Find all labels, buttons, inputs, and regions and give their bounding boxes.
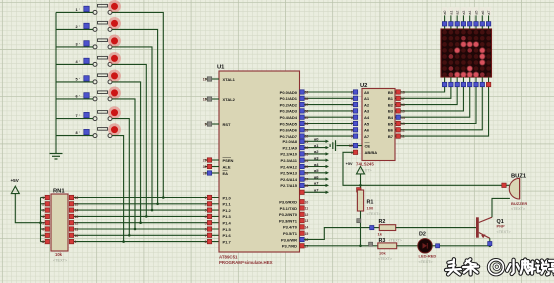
svg-text:15: 15 [305,232,309,236]
U1 pin 13 P3.3/INT1 [300,218,304,222]
wire P3.7 to R3 [304,245,378,247]
svg-text:P1.2: P1.2 [223,208,232,213]
U1 pin 25 P2.4 net label a4 [300,166,326,168]
svg-text:a7: a7 [487,11,491,15]
U1 pin 18 XTAL2 [205,98,219,100]
matrix top pin a2 [456,15,458,30]
svg-text:8: 8 [42,240,44,244]
svg-text:35: 35 [305,116,309,120]
wire button S6 to P1.5 [112,99,135,229]
svg-text:A7: A7 [364,134,370,139]
svg-text:B0: B0 [388,90,394,95]
svg-text:+5V: +5V [346,162,353,166]
svg-text:XTAL2: XTAL2 [223,97,236,102]
svg-text:14: 14 [75,209,79,213]
wire +5V to R1 [360,174,362,190]
svg-text:PSEN: PSEN [223,158,234,163]
svg-text:4: 4 [205,215,207,219]
matrix bottom pin b3 [462,77,464,87]
wire button S8 left to bus [56,135,93,137]
svg-text:▫: ▫ [79,7,80,11]
svg-text:23: 23 [305,153,309,157]
svg-text:15: 15 [75,202,79,206]
matrix bottom pin b4 [469,77,471,87]
svg-text:P3.5/T1: P3.5/T1 [283,231,298,236]
svg-text:a4: a4 [468,11,472,15]
svg-text:a5: a5 [475,11,479,15]
matrix bottom pin b2 [456,77,458,87]
svg-text:12: 12 [75,221,79,225]
svg-text:<TEXT>: <TEXT> [389,238,402,242]
svg-text:a5: a5 [314,168,319,173]
U1 pin 16 P3.6/WR [300,237,304,241]
U1 pin 6 P1.5 [207,227,211,231]
svg-text:A3: A3 [364,109,370,114]
svg-text:5: 5 [205,221,207,225]
svg-text:D2: D2 [419,231,426,237]
U1 pin 19 XTAL1 [205,78,219,80]
wire button common ground bus [55,12,57,152]
wire button S1 left to bus [56,11,93,13]
svg-text:7: 7 [205,234,207,238]
svg-text:P0.1/AD1: P0.1/AD1 [280,96,298,101]
svg-text:P3.0/RXD: P3.0/RXD [279,200,297,205]
svg-text:A1: A1 [364,96,370,101]
svg-text:22: 22 [305,146,309,150]
transistor Q1 PNP [476,217,479,237]
svg-text:2: 2 [76,25,78,29]
wire button S8 to P1.7 [112,136,124,242]
svg-text:7: 7 [42,234,44,238]
svg-text:30: 30 [203,165,207,169]
svg-text:5: 5 [76,77,78,81]
svg-text:CE: CE [365,143,371,148]
svg-text:P1.4: P1.4 [223,221,232,226]
svg-text:a2: a2 [314,149,319,154]
svg-text:<TEXT>: <TEXT> [378,257,393,261]
svg-text:29: 29 [203,159,207,163]
svg-text:A2: A2 [364,102,370,107]
wire button S3 to P1.2 [112,47,152,210]
svg-text:26: 26 [305,171,309,175]
wire button S4 to P1.3 [112,64,146,216]
svg-text:P1.0: P1.0 [223,195,232,200]
wire R1 to LED row [360,211,362,246]
svg-text:6: 6 [42,228,44,232]
svg-text:P1.7: P1.7 [223,239,232,244]
U1 pin 30 ALE [205,166,219,168]
watermark 头条 @小魁说事 [448,262,453,263]
svg-text:a1: a1 [314,143,319,148]
svg-text:a2: a2 [456,11,460,15]
svg-text:ALE: ALE [223,164,231,169]
U1 pin 32 P0.7 wire to U2 A7 [300,135,354,137]
svg-text:13: 13 [305,219,309,223]
svg-text:P3.4/T0: P3.4/T0 [283,225,298,230]
U2 pin 19 CE [337,145,363,147]
svg-text:<TEXT>: <TEXT> [419,260,434,264]
U2 pin 7 A5 [353,121,357,125]
wire D2 to Q1 emitter [432,245,490,247]
matrix bottom pin b1 [450,77,452,87]
U1 pin 21 P2.0 net label a0 [300,140,326,142]
wire button S3 left to bus [56,46,93,48]
U2 pin 4 A2 [353,102,357,106]
svg-text:A0: A0 [364,90,370,95]
U2 pin 3 A1 [353,96,357,100]
U1 pin 10 P3.0/RXD [300,200,304,204]
svg-text:P0.3/AD3: P0.3/AD3 [280,109,298,114]
svg-text:a1: a1 [449,11,453,15]
svg-text:<TEXT>: <TEXT> [358,169,373,173]
svg-text:B4: B4 [388,115,394,120]
svg-text:7: 7 [76,114,78,118]
U1 pin 22 P2.1 net label a1 [300,147,326,149]
svg-text:RST: RST [223,122,232,127]
wire P3.6 to R2 / Q1 base net [304,228,379,240]
svg-text:P3.3/INT1: P3.3/INT1 [279,218,298,223]
wire button S1 to P1.0 [112,12,163,197]
wire net P1.3 row [74,215,219,217]
U1 pin 9 RST [205,123,219,125]
U2 pin 17 B1 wire to matrix column 1 [395,87,451,99]
svg-text:P2.4/A12: P2.4/A12 [280,164,297,169]
svg-text:5: 5 [351,110,353,114]
svg-text:10: 10 [75,234,79,238]
U2 pin 15 B3 wire to matrix column 3 [395,87,463,111]
matrix top pin a3 [462,15,464,30]
U2 pin 18 B0 wire to matrix column 0 [395,87,445,92]
svg-text:12: 12 [401,128,405,132]
svg-text:P2.6/A14: P2.6/A14 [280,177,297,182]
svg-text:9: 9 [205,123,207,127]
svg-text:<TEXT>: <TEXT> [367,212,382,216]
svg-text:11: 11 [401,135,405,139]
U2 pin 2 A0 [353,90,357,94]
matrix top pin a0 [444,15,446,30]
matrix top pin a5 [475,15,477,30]
U2 pin 13 B5 wire to matrix column 5 [395,87,476,124]
wire button S2 left to bus [56,28,93,30]
U1 pin 39 P0.0 wire to U2 A0 [300,91,354,93]
svg-text:P0.6/AD6: P0.6/AD6 [280,128,298,133]
svg-text:A5: A5 [364,121,370,126]
svg-text:11: 11 [75,228,79,232]
svg-text:10: 10 [305,200,309,204]
U1 pin 12 P3.2/INT0 [300,212,304,216]
matrix bottom pin b5 [475,77,477,87]
svg-text:39: 39 [305,91,309,95]
svg-text:P2.3/A11: P2.3/A11 [281,158,298,163]
wire button S7 left to bus [56,118,93,120]
svg-text:3: 3 [205,209,207,213]
U1 pin 35 P0.4 wire to U2 A4 [300,116,354,118]
svg-text:6: 6 [76,94,78,98]
svg-text:PNP: PNP [497,224,506,229]
svg-text:P1.6: P1.6 [223,233,232,238]
svg-text:a0: a0 [443,11,447,15]
8x8 LED dot matrix display [441,29,492,77]
svg-text:4: 4 [42,215,44,219]
U1 pin 15 P3.5/T1 [300,231,304,235]
svg-text:▫: ▫ [79,113,80,117]
U1 pin 17 P3.7/RD [300,244,304,248]
U1 pin 4 P1.3 [207,214,211,218]
svg-text:3: 3 [42,209,44,213]
svg-text:17: 17 [305,244,309,248]
matrix bottom pin b0 [444,77,446,87]
svg-text:B3: B3 [388,109,394,114]
svg-text:B7: B7 [388,134,394,139]
U1 pin 28 P2.7 net label a7 [300,184,326,186]
svg-text:6: 6 [205,228,207,232]
U1 pin 37 P0.2 wire to U2 A2 [300,104,354,106]
svg-text:2: 2 [351,91,353,95]
svg-text:37: 37 [305,103,309,107]
svg-text:16: 16 [305,238,309,242]
svg-text:100: 100 [367,206,374,211]
svg-text:8: 8 [351,128,353,132]
svg-text:▫: ▫ [79,130,80,134]
svg-text:4: 4 [351,103,353,107]
svg-text:a3: a3 [314,156,319,161]
svg-text:14: 14 [401,116,405,120]
svg-text:1: 1 [351,151,353,155]
U2 pin 14 B4 wire to matrix column 4 [395,87,470,118]
svg-text:8: 8 [205,240,207,244]
svg-text:AB/BA: AB/BA [365,150,378,155]
svg-text:10k: 10k [379,250,386,255]
U2 pin 11 B7 wire to matrix column 7 [395,87,489,136]
matrix top pin a7 [488,15,490,30]
U2 pin 12 B6 wire to matrix column 6 [395,87,482,130]
svg-text:5: 5 [42,221,44,225]
svg-text:P0.5/AD5: P0.5/AD5 [280,121,298,126]
svg-text:<TEXT>: <TEXT> [53,259,68,263]
svg-text:▫: ▫ [79,41,80,45]
svg-text:1: 1 [42,196,44,200]
svg-text:12: 12 [305,213,309,217]
svg-text:A4: A4 [364,115,370,120]
svg-text:74LS245: 74LS245 [356,162,374,167]
wire button S5 left to bus [56,81,93,83]
svg-text:27: 27 [305,178,309,182]
svg-text:P3.7/RD: P3.7/RD [282,244,297,249]
svg-text:<TEXT>: <TEXT> [511,207,526,211]
svg-text:38: 38 [305,97,309,101]
svg-text:21: 21 [305,140,309,144]
wire Q1 emitter down [489,238,491,246]
matrix top pin a6 [481,15,483,30]
wire button S2 to P1.1 [112,29,158,203]
svg-text:10k: 10k [55,252,63,257]
U1 pin 29 PSEN [205,159,219,161]
U1 pin 27 P2.6 net label a6 [300,178,326,180]
svg-text:2: 2 [205,202,207,206]
svg-text:PROGRAM=simulate.HEX: PROGRAM=simulate.HEX [219,260,273,265]
svg-text:17: 17 [401,97,405,101]
U1 pin 8 P1.7 [207,239,211,243]
svg-text:P0.4/AD4: P0.4/AD4 [280,115,298,120]
svg-text:14: 14 [305,226,309,230]
U1 pin 33 P0.6 wire to U2 A6 [300,129,354,131]
svg-text:B6: B6 [388,128,394,133]
svg-text:1: 1 [205,196,207,200]
U2 pin 9 A7 [353,134,357,138]
wire Q1 collector to buzzer [492,198,510,217]
svg-text:34: 34 [305,122,309,126]
svg-text:a6: a6 [314,174,319,179]
U2 pin 5 A3 [353,109,357,113]
svg-text:31: 31 [203,172,207,176]
svg-text:P1.3: P1.3 [223,214,232,219]
ground (U2 CE), rotated [335,140,337,151]
svg-text:a4: a4 [314,162,319,167]
U1 pin 3 P1.2 [207,208,211,212]
svg-text:A6: A6 [364,128,370,133]
wire button S7 to P1.6 [112,119,129,236]
svg-text:U1: U1 [217,65,225,71]
wire net P1.7 row [74,241,219,243]
matrix bottom pin b6 [481,77,483,87]
U1 pin 34 P0.5 wire to U2 A5 [300,123,354,125]
svg-text:a3: a3 [462,11,466,15]
svg-text:P3.1/TXD: P3.1/TXD [280,206,297,211]
svg-text:8: 8 [76,131,78,135]
U2 pin 16 B2 wire to matrix column 2 [395,87,457,105]
wire net P1.4 row [74,222,219,224]
U1 pin 5 P1.4 [207,221,211,225]
svg-text:3: 3 [351,97,353,101]
svg-text:32: 32 [305,135,309,139]
svg-text:XTAL1: XTAL1 [223,77,236,82]
wire net P1.2 row [74,209,219,211]
svg-text:▫: ▫ [79,76,80,80]
svg-text:P0.0/AD0: P0.0/AD0 [280,90,298,95]
wire net P1.1 row [74,203,219,205]
U1 pin 7 P1.6 [207,233,211,237]
svg-text:18: 18 [203,98,207,102]
U1 pin 14 P3.4/T0 [300,225,304,229]
svg-text:16: 16 [401,103,405,107]
svg-text:EA: EA [223,171,229,176]
U2 pin 6 A4 [353,115,357,119]
svg-text:9: 9 [351,135,353,139]
svg-text:▫: ▫ [79,59,80,63]
resistor R1 [357,190,363,211]
svg-text:25: 25 [305,165,309,169]
svg-text:11: 11 [305,207,309,211]
wire button S5 to P1.4 [112,82,141,223]
svg-text:1k: 1k [378,231,383,236]
U1 extra net label row [300,191,326,193]
svg-text:28: 28 [305,184,309,188]
svg-text:16: 16 [75,196,79,200]
svg-text:AT89C51: AT89C51 [219,254,238,259]
svg-text:P2.0/A8: P2.0/A8 [283,139,298,144]
svg-text:7: 7 [351,122,353,126]
svg-text:P2.2/A10: P2.2/A10 [280,152,297,157]
svg-text:<TEXT>: <TEXT> [497,230,512,234]
svg-text:B1: B1 [388,96,394,101]
wire RN1 left bus [40,198,42,242]
U1 pin 2 P1.1 [207,202,211,206]
svg-text:P3.2/INT0: P3.2/INT0 [279,212,298,217]
svg-text:33: 33 [305,128,309,132]
svg-text:2: 2 [42,202,44,206]
svg-text:▫: ▫ [79,93,80,97]
svg-text:13: 13 [401,122,405,126]
svg-text:a0: a0 [314,137,319,142]
svg-text:a7: a7 [314,188,319,193]
U1 pin 26 P2.5 net label a5 [300,172,326,174]
wire net P1.5 row [74,228,219,230]
U1 pin 38 P0.1 wire to U2 A1 [300,97,354,99]
svg-text:R2: R2 [379,219,386,225]
matrix top pin a1 [450,15,452,30]
svg-text:▫: ▫ [79,24,80,28]
svg-text:B5: B5 [388,121,394,126]
U1 pin 24 P2.3 net label a3 [300,159,326,161]
svg-text:P3.6/WR: P3.6/WR [281,237,297,242]
svg-text:P1.5: P1.5 [223,227,232,232]
svg-text:18: 18 [401,91,405,95]
wire net P1.6 row [74,234,219,236]
wire button S4 left to bus [56,63,93,65]
wire R3 to D2 [397,245,418,247]
svg-text:13: 13 [75,215,79,219]
svg-text:6: 6 [351,116,353,120]
wire net P1.0 row [74,197,219,199]
svg-text:+5V: +5V [11,178,20,183]
matrix bottom pin b7 [488,77,490,87]
svg-text:1: 1 [76,8,78,12]
svg-text:BUZZER: BUZZER [511,201,527,206]
wire button S6 left to bus [56,98,93,100]
svg-text:24: 24 [305,159,309,163]
svg-text:3: 3 [76,42,78,46]
wire AB/BA to +5V rail and buzzer [343,152,510,185]
U1 pin 36 P0.3 wire to U2 A3 [300,110,354,112]
svg-text:15: 15 [401,110,405,114]
U2 pin 8 A6 [353,128,357,132]
wire +5V to RN1 common [15,194,40,223]
svg-text:36: 36 [305,110,309,114]
svg-text:a6: a6 [481,11,485,15]
svg-text:P2.5/A13: P2.5/A13 [280,171,297,176]
U1 pin 31 EA [205,172,219,174]
U1 pin 1 P1.0 [207,195,211,199]
svg-text:P2.1/A9: P2.1/A9 [283,145,298,150]
svg-text:P0.2/AD2: P0.2/AD2 [280,102,298,107]
wire R2 to Q1 base [396,227,476,229]
U1 pin 23 P2.2 net label a2 [300,153,326,155]
matrix top pin a4 [469,15,471,30]
svg-text:LED-RED: LED-RED [419,254,437,259]
svg-text:P2.7/A15: P2.7/A15 [280,183,297,188]
U2 pin 1 AB/BA [353,150,357,154]
svg-text:19: 19 [349,144,353,148]
svg-text:a7: a7 [314,181,319,186]
svg-text:B2: B2 [388,102,394,107]
ground (button bus) [55,152,57,154]
svg-text:9: 9 [75,240,77,244]
U1 pin 11 P3.1/TXD [300,206,304,210]
svg-text:19: 19 [203,78,207,82]
svg-text:P1.1: P1.1 [223,202,232,207]
